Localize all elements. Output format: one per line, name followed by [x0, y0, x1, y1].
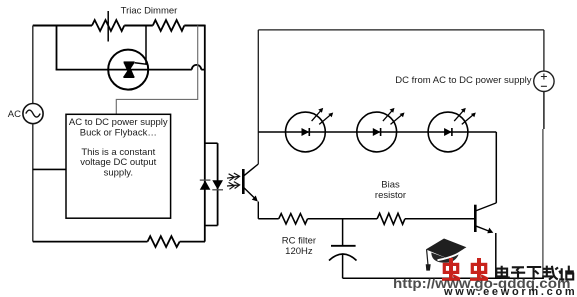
resistor R3 — [148, 236, 180, 247]
svg-text:Triac Dimmer: Triac Dimmer — [121, 6, 178, 17]
capacitor C1 top lead — [342, 219, 344, 246]
opto light arrow upper — [227, 176, 239, 178]
triac symbol (two anti-parallel SCR triangles) — [124, 61, 135, 63]
watermark 电子下载站 black glyphs — [496, 266, 574, 280]
wire LED string to collector corner — [495, 132, 497, 203]
wire bias resistor to Q1 base — [405, 218, 474, 220]
LED1 — [286, 108, 334, 152]
watermark 虫虫 red glyphs — [442, 258, 488, 279]
wire LED string rail — [258, 131, 496, 133]
LED2 — [357, 108, 405, 152]
wire bottom rail — [343, 277, 544, 279]
opto phototransistor bar — [242, 169, 245, 194]
triac circle — [108, 50, 148, 90]
opto light arrow lower — [227, 185, 239, 186]
resistor RC filter — [279, 214, 308, 224]
svg-text:DC from AC to DC power supply: DC from AC to DC power supply — [395, 75, 531, 86]
下 — [527, 267, 541, 280]
LED3 — [428, 108, 476, 152]
DC source plus sign — [541, 74, 547, 80]
载 — [542, 266, 558, 280]
wire base line — [258, 218, 278, 220]
wire bottom rail right of R3 — [180, 241, 205, 243]
wire AC to box left — [33, 168, 66, 170]
wire right rail lower — [543, 92, 545, 130]
box AC-DC power supply — [66, 114, 171, 218]
DC source U2 — [534, 71, 554, 91]
wire RC filter to bias resistor with junction node — [308, 218, 378, 220]
wire opto LED main vertical — [204, 25, 206, 242]
wire hop to LED drop corner — [201, 69, 205, 71]
watermark graduation cap — [426, 239, 467, 271]
wire right rail upper — [543, 30, 545, 71]
wire gate tap from top rail — [135, 26, 146, 65]
capacitor C1 top plate — [331, 245, 356, 247]
opto LED D2 (down) — [212, 180, 223, 189]
resistor R2 — [153, 20, 185, 31]
svg-text:Buck or Flyback…: Buck or Flyback… — [80, 128, 157, 139]
wire right top rail — [258, 29, 544, 31]
transistor Q1 emitter lead with arrow — [476, 226, 489, 231]
resistor bias — [377, 213, 405, 224]
wire gray feed from rail to box top — [116, 26, 197, 115]
resistor R1 (variable, dimmer pot) — [92, 20, 124, 31]
wire bottom of dimmer loop — [33, 241, 148, 243]
DC source minus sign — [541, 85, 547, 87]
svg-text:120Hz: 120Hz — [285, 246, 313, 257]
wire opto branch top bar — [205, 142, 218, 144]
电 — [496, 269, 507, 277]
wire hop over gray wire — [192, 65, 201, 70]
transistor Q1 collector lead — [476, 203, 496, 211]
wire left vertical below AC source — [32, 124, 34, 242]
svg-text:Bias: Bias — [381, 180, 400, 191]
wire top rail of dimmer loop — [33, 25, 92, 27]
svg-text:RC filter: RC filter — [282, 236, 316, 247]
wire inner loop left vertical — [56, 25, 58, 70]
wire opto emitter down to RC line — [257, 202, 259, 219]
svg-text:resistor: resistor — [375, 190, 406, 201]
opto collector lead — [244, 164, 258, 176]
wire opto branch vertical — [217, 143, 219, 225]
AC source V1 — [23, 104, 43, 124]
wire inner loop horizontal through triac — [56, 69, 192, 71]
opto emitter lead with arrow — [244, 188, 255, 199]
opto LED D1 (up) — [200, 180, 211, 189]
wire emitter vertical down — [495, 233, 497, 278]
svg-text:AC: AC — [8, 109, 21, 120]
子 — [511, 267, 525, 279]
capacitor C1 curved plate — [329, 254, 357, 261]
wiper stroke of R1 — [107, 11, 109, 42]
svg-text:www.eeworm.com: www.eeworm.com — [443, 286, 577, 297]
站 — [559, 266, 574, 280]
wire opto collector vertical to top rail — [257, 30, 259, 164]
wire opto branch bottom bar — [205, 225, 218, 227]
wire left vertical above AC source — [32, 26, 34, 104]
transistor Q1 bar — [474, 205, 477, 232]
svg-text:supply.: supply. — [104, 168, 133, 179]
capacitor C1 bottom lead — [342, 255, 344, 279]
